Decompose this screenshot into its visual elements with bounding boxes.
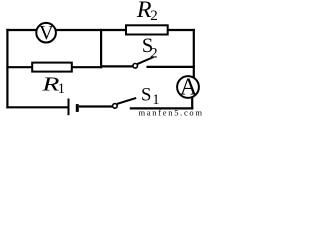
svg-text:S: S <box>141 84 151 105</box>
wire junction vertical <box>100 29 102 68</box>
wire middle rail right to S2 <box>100 65 133 67</box>
wire ammeter bottom stub <box>191 97 193 110</box>
svg-text:R: R <box>41 73 59 95</box>
switch S2 <box>137 57 153 64</box>
voltmeter V <box>36 23 56 43</box>
battery cell <box>68 99 70 116</box>
wire middle rail left <box>6 66 102 68</box>
wire bottom mid (battery to S1) <box>79 105 113 107</box>
wire S2 right <box>147 66 195 68</box>
svg-text:1: 1 <box>58 81 65 97</box>
wire top rail <box>6 29 194 31</box>
resistor R1 box <box>32 63 72 72</box>
svg-text:2: 2 <box>150 45 158 61</box>
wire right rail <box>193 29 195 79</box>
svg-text:manfen5.com: manfen5.com <box>139 107 204 116</box>
svg-text:R: R <box>136 0 152 23</box>
ammeter A <box>177 76 199 98</box>
wire left rail <box>6 29 8 109</box>
resistor R2 box <box>126 25 168 34</box>
wire bottom left <box>6 106 67 108</box>
wire bottom right <box>130 107 194 109</box>
svg-text:A: A <box>180 73 198 100</box>
svg-text:1: 1 <box>152 92 159 108</box>
svg-text:V: V <box>39 22 54 44</box>
switch S1 <box>117 98 136 104</box>
svg-text:2: 2 <box>150 8 158 24</box>
